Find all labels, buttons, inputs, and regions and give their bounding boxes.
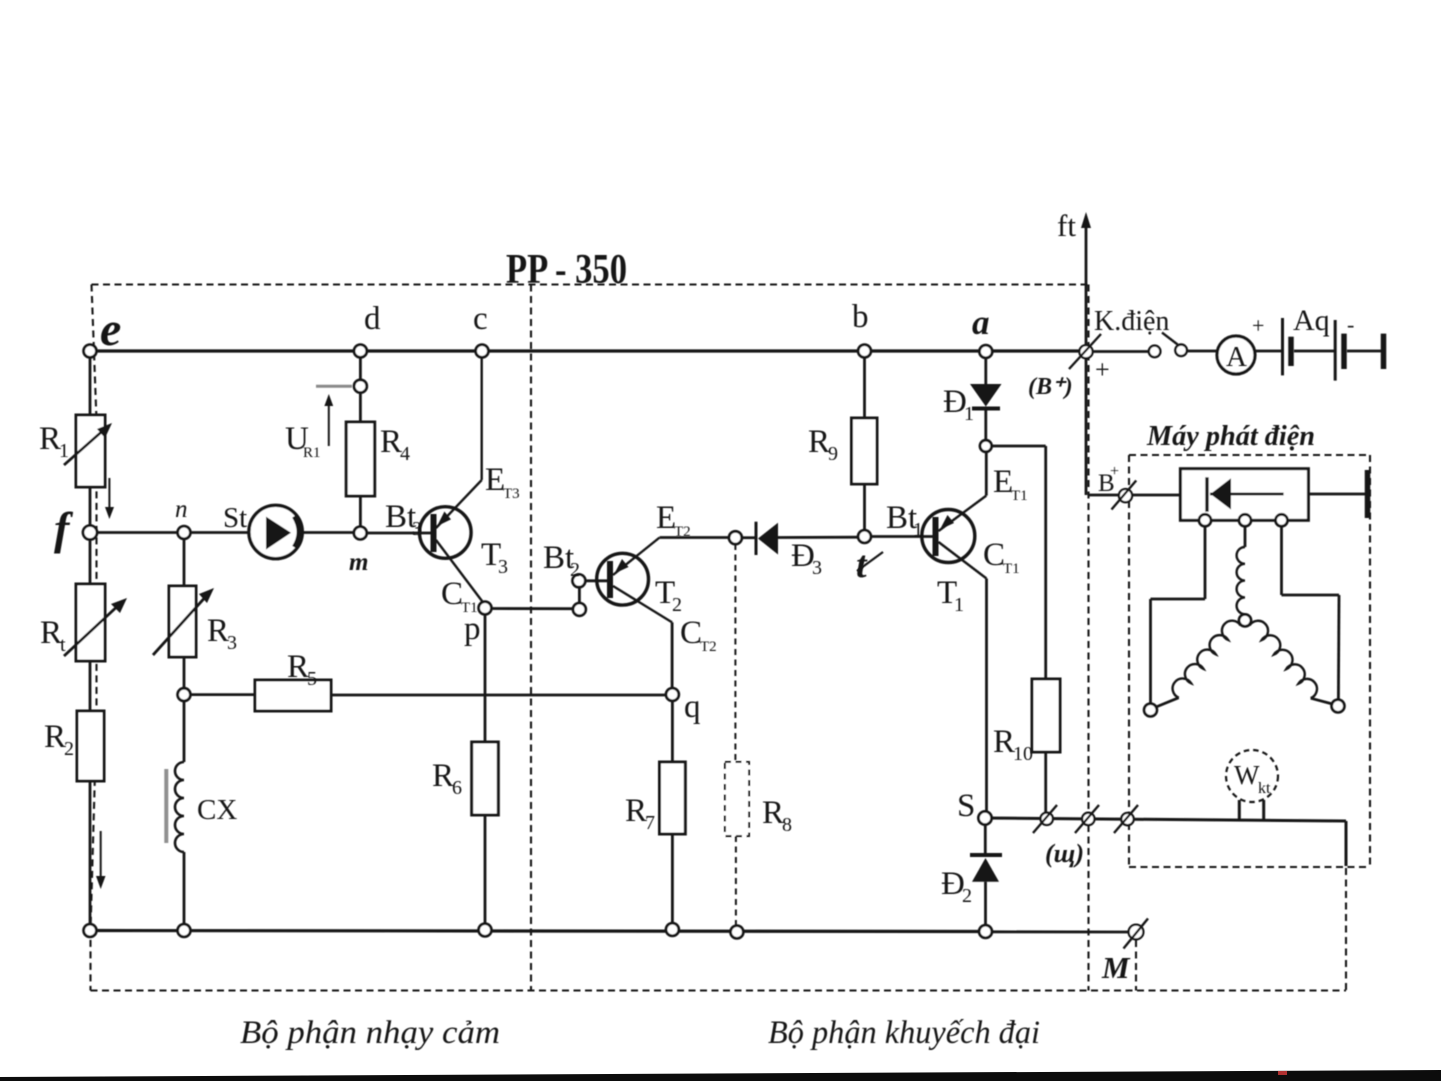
svg-text:4: 4 bbox=[400, 443, 410, 465]
svg-text:e: e bbox=[100, 303, 121, 356]
svg-text:S: S bbox=[957, 788, 975, 824]
svg-text:C: C bbox=[680, 615, 702, 651]
svg-text:W: W bbox=[1234, 760, 1260, 790]
svg-text:p: p bbox=[464, 611, 481, 647]
svg-text:b: b bbox=[852, 299, 869, 335]
svg-text:(щ): (щ) bbox=[1045, 839, 1084, 868]
svg-text:q: q bbox=[684, 689, 701, 725]
svg-text:Máy phát điện: Máy phát điện bbox=[1146, 420, 1315, 452]
svg-text:t: t bbox=[60, 634, 66, 656]
svg-text:R: R bbox=[44, 719, 66, 755]
svg-text:3: 3 bbox=[812, 557, 822, 579]
svg-text:n: n bbox=[175, 496, 188, 523]
svg-text:-: - bbox=[1347, 312, 1354, 337]
svg-text:2: 2 bbox=[64, 738, 74, 760]
svg-text:3: 3 bbox=[412, 518, 422, 540]
svg-text:R: R bbox=[432, 758, 454, 794]
svg-text:T2: T2 bbox=[700, 639, 717, 655]
svg-text:K.điện: K.điện bbox=[1094, 306, 1169, 337]
svg-text:2: 2 bbox=[570, 559, 580, 581]
svg-text:M: M bbox=[1101, 950, 1131, 985]
svg-text:5: 5 bbox=[307, 668, 317, 690]
svg-text:t: t bbox=[856, 544, 868, 586]
svg-text:8: 8 bbox=[782, 814, 792, 836]
svg-text:R: R bbox=[207, 613, 229, 649]
svg-text:+: + bbox=[1110, 463, 1119, 480]
svg-text:C: C bbox=[983, 537, 1005, 573]
svg-text:Bộ phận khuyếch đại: Bộ phận khuyếch đại bbox=[768, 1015, 1040, 1051]
svg-text:R: R bbox=[287, 649, 309, 685]
svg-text:2: 2 bbox=[962, 885, 972, 907]
svg-text:PP - 350: PP - 350 bbox=[506, 247, 627, 293]
svg-text:R: R bbox=[39, 421, 61, 457]
svg-text:R: R bbox=[625, 793, 647, 829]
svg-text:R: R bbox=[808, 424, 830, 460]
svg-text:CX: CX bbox=[197, 794, 237, 826]
svg-text:1: 1 bbox=[913, 519, 923, 541]
svg-text:R: R bbox=[993, 724, 1015, 760]
svg-text:d: d bbox=[364, 301, 381, 337]
svg-text:ft: ft bbox=[1057, 208, 1076, 243]
svg-text:T2: T2 bbox=[674, 524, 691, 540]
svg-text:10: 10 bbox=[1013, 743, 1033, 765]
svg-text:9: 9 bbox=[828, 443, 838, 465]
svg-text:T1: T1 bbox=[1011, 488, 1028, 504]
svg-text:Aq: Aq bbox=[1293, 304, 1330, 337]
svg-text:kt: kt bbox=[1258, 780, 1271, 797]
svg-text:1: 1 bbox=[954, 594, 964, 616]
svg-text:m: m bbox=[349, 549, 368, 576]
svg-text:R1: R1 bbox=[303, 445, 321, 461]
svg-text:3: 3 bbox=[498, 556, 508, 578]
svg-text:T1: T1 bbox=[1003, 561, 1020, 577]
svg-text:+: + bbox=[1095, 355, 1110, 384]
svg-text:6: 6 bbox=[452, 777, 462, 799]
svg-text:7: 7 bbox=[645, 812, 655, 834]
svg-text:(B⁺): (B⁺) bbox=[1028, 374, 1073, 400]
svg-text:T1: T1 bbox=[461, 600, 478, 616]
svg-text:2: 2 bbox=[672, 594, 682, 616]
svg-text:3: 3 bbox=[227, 632, 237, 654]
svg-text:R: R bbox=[762, 795, 784, 831]
svg-text:1: 1 bbox=[59, 440, 69, 462]
svg-text:R: R bbox=[40, 615, 62, 651]
svg-text:C: C bbox=[441, 576, 463, 612]
svg-text:Bộ phận nhạy cảm: Bộ phận nhạy cảm bbox=[240, 1015, 500, 1051]
svg-text:R: R bbox=[380, 424, 402, 460]
svg-text:T3: T3 bbox=[503, 486, 520, 502]
svg-text:a: a bbox=[972, 303, 990, 342]
svg-text:St: St bbox=[223, 502, 247, 534]
svg-text:c: c bbox=[473, 301, 488, 337]
svg-text:A: A bbox=[1226, 341, 1247, 373]
svg-text:+: + bbox=[1252, 313, 1264, 338]
svg-text:1: 1 bbox=[964, 403, 974, 425]
